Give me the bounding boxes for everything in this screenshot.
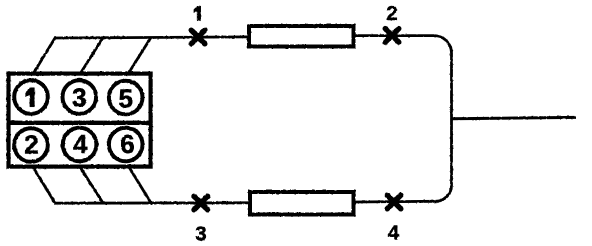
svg-text:6: 6 — [120, 129, 134, 159]
resistor R2 bottom suppressor box — [250, 192, 354, 215]
test point X4 — [387, 195, 401, 209]
wire diagonal from cylinder 4 — [80, 167, 103, 203]
test point X2 — [385, 29, 399, 43]
cylinder terminal circle 5 — [109, 81, 143, 115]
svg-text:2: 2 — [386, 2, 397, 25]
wire diagonal from cylinder 6 — [129, 167, 151, 203]
svg-text:4: 4 — [73, 129, 88, 159]
resistor R1 top suppressor box — [249, 26, 354, 47]
svg-text:4: 4 — [388, 222, 400, 245]
connector block outline — [9, 74, 151, 167]
cylinder terminal circle 3 — [63, 80, 97, 114]
wire diagonal from cylinder 5 — [128, 37, 151, 74]
cylinder number 1 — [26, 88, 35, 107]
svg-text:3: 3 — [195, 223, 206, 246]
cylinder terminal circle 4 — [63, 128, 97, 162]
wire bottom bundle line — [54, 201, 248, 204]
svg-text:3: 3 — [72, 83, 86, 113]
wire diagonal from cylinder 2 — [33, 167, 55, 203]
test point X3 — [194, 196, 208, 210]
cylinder terminal circle 1 — [14, 80, 48, 114]
wire right side with rounded corners and vertical bus — [434, 36, 452, 202]
cylinder terminal circle 6 — [109, 128, 143, 162]
wire diagonal from cylinder 1 — [33, 38, 55, 74]
cylinder terminal circle 2 — [14, 128, 48, 162]
svg-text:5: 5 — [118, 84, 132, 114]
svg-text:2: 2 — [24, 129, 38, 159]
wire top bundle line — [54, 37, 247, 38]
connector block divider — [7, 121, 153, 125]
label 1 (test point) — [194, 6, 201, 20]
wire diagonal from cylinder 3 — [80, 38, 103, 74]
test point X1 — [191, 30, 205, 44]
wire top right segment — [356, 34, 435, 37]
wire bottom right segment — [356, 200, 436, 203]
wire output line to right — [452, 117, 577, 118]
